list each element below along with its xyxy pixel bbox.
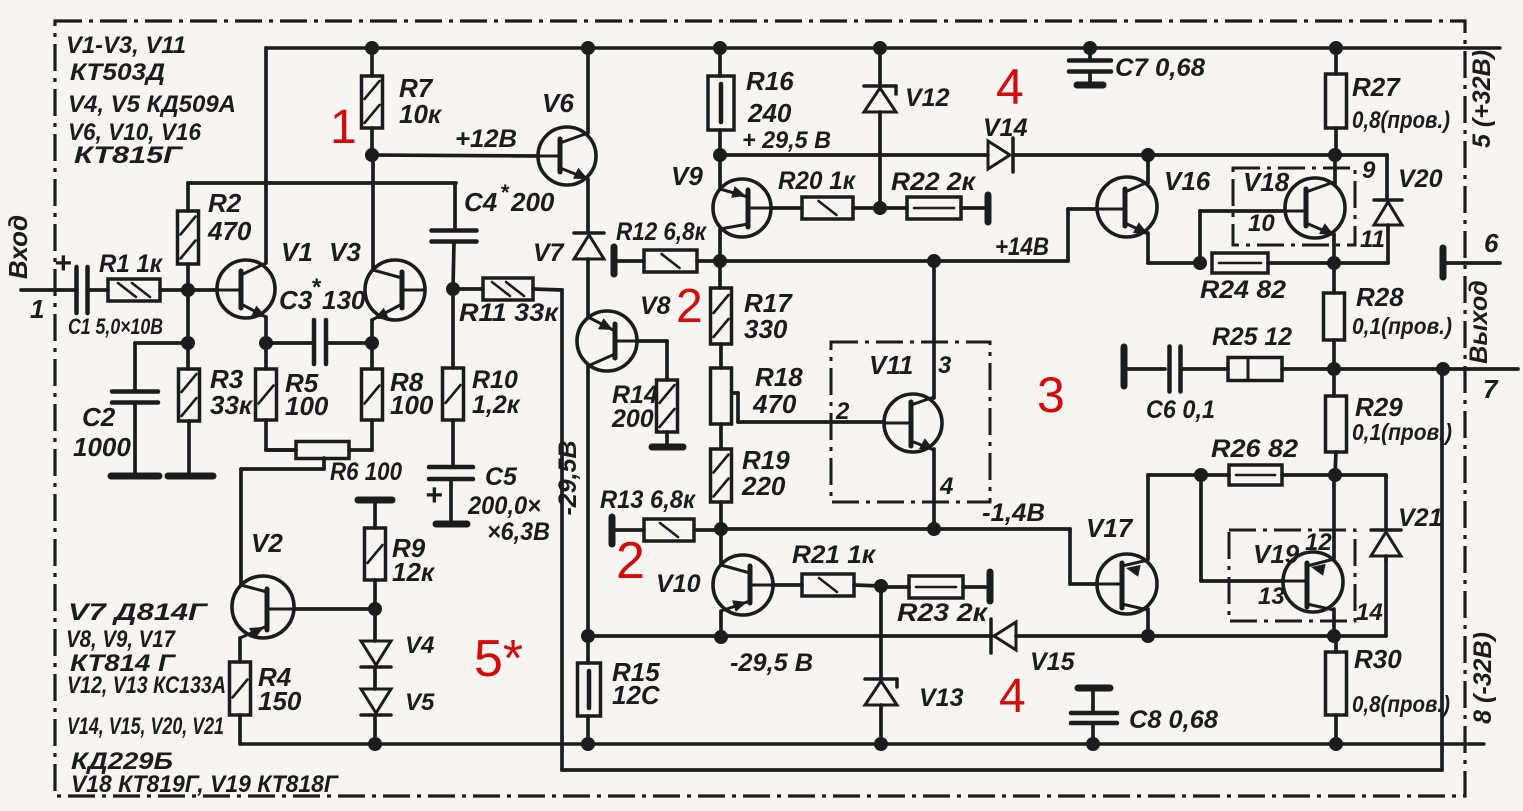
node V3 emitter junction [365, 336, 379, 350]
svg-text:2: 2 [676, 280, 703, 333]
capacitor C3 [312, 320, 317, 364]
node R20/R22 junction [873, 201, 887, 215]
box V19 dash-dot [1229, 530, 1355, 621]
wire C3 to V3 emitter [326, 341, 372, 345]
terminal bar R12 [611, 247, 618, 274]
transistor V16 [1097, 177, 1157, 237]
svg-text:R20 1к: R20 1к [778, 167, 856, 195]
svg-text:0,8(пров.): 0,8(пров.) [1352, 691, 1450, 717]
resistor R2 [178, 211, 199, 264]
resistor R15 [578, 663, 601, 716]
svg-text:12C: 12C [612, 680, 661, 710]
wire R28 top stem [1332, 263, 1336, 293]
wire R3 to ground bar [187, 421, 191, 473]
node R21/R23 junction [874, 579, 888, 593]
wire -32V bottom rail [240, 742, 1484, 745]
wire V8 base to R14 [636, 339, 667, 343]
wire V10 top entry [719, 529, 723, 565]
wire R21 to junction [854, 585, 881, 586]
node V11 emitter junction [927, 522, 941, 536]
svg-text:+: + [54, 247, 72, 280]
diode V5 [361, 689, 391, 713]
wire R18 tap [733, 391, 738, 395]
wire R30 bottom stem [1334, 715, 1338, 744]
svg-text:V12: V12 [905, 84, 950, 112]
node V1 base junction [181, 283, 195, 297]
node V3 base junction [446, 282, 460, 296]
wire V9 collector down [718, 229, 722, 261]
svg-text:C1 5,0×10В: C1 5,0×10В [68, 314, 163, 339]
svg-text:5 (+32В): 5 (+32В) [1468, 50, 1496, 148]
diode V20 [1374, 198, 1402, 202]
transistor V1 [217, 260, 275, 318]
svg-text:V8: V8 [640, 292, 671, 320]
wire V2 emitter [238, 638, 242, 662]
wire V2 base to node [294, 607, 375, 611]
wire terminal 6 [1446, 261, 1500, 265]
resistor R3 [179, 369, 200, 421]
wire R8 bottom [370, 420, 374, 450]
svg-text:10к: 10к [399, 99, 443, 129]
svg-text:R11 33к: R11 33к [459, 299, 559, 327]
resistor R5 [256, 369, 277, 420]
wire C1 to R1 [88, 288, 108, 292]
wire R29 top stem [1332, 369, 1336, 396]
wire +29,5V rail right [1013, 153, 1387, 157]
wire R12 to node [697, 259, 720, 263]
wire +14V line [720, 259, 1068, 263]
terminal 1 input wire [21, 288, 77, 292]
svg-text:+ 29,5 В: + 29,5 В [742, 127, 831, 154]
resistor R29 [1326, 396, 1347, 452]
wire bootstrap line y183 [188, 181, 456, 185]
transistor V10 [713, 555, 773, 615]
node -1,4V left junction [714, 522, 728, 536]
wire R11 to feedback line [533, 289, 562, 290]
svg-text:V4: V4 [405, 632, 434, 659]
svg-text:0,1(пров.): 0,1(пров.) [1352, 313, 1452, 339]
svg-text:R6 100: R6 100 [330, 458, 402, 486]
node V16 collector junction [1141, 148, 1155, 162]
node R24 left junction [1193, 256, 1207, 270]
svg-text:R18: R18 [755, 362, 803, 392]
wire -29,5V rail [588, 634, 992, 638]
wire C8 lower stem [1091, 723, 1095, 744]
wire +32V top rail [266, 46, 1500, 49]
wire R20 to junction [853, 206, 880, 210]
wire +12V to V6 base [372, 155, 538, 156]
node V17 emitter junction [1141, 629, 1155, 643]
wire feedback vertical left [560, 290, 564, 770]
wire R15 bottom [586, 716, 590, 744]
svg-text:+14В: +14В [995, 233, 1049, 261]
transistor V18 [1285, 178, 1345, 238]
svg-text:200: 200 [510, 187, 555, 217]
wire V10 bottom [719, 611, 723, 637]
svg-text:R23 2к: R23 2к [897, 599, 988, 627]
wire feedback return bottom [562, 768, 1442, 772]
wire V18 emitter [1332, 234, 1336, 263]
node R26 right junction [1328, 468, 1342, 482]
wire bar to C6 [1127, 367, 1165, 371]
svg-text:11: 11 [1360, 226, 1385, 253]
svg-text:R12 6,8к: R12 6,8к [616, 218, 707, 246]
terminal bar above R9 [358, 497, 392, 504]
svg-text:R16: R16 [746, 66, 794, 96]
wire V20 bottom [1386, 225, 1390, 263]
diode V13 zener [865, 677, 897, 681]
svg-text:V13: V13 [919, 684, 964, 712]
terminal bar R22 [985, 195, 992, 222]
node V18 emitter junction [1327, 256, 1341, 270]
capacitor C1 [74, 267, 79, 313]
wire R23 to bar [963, 585, 988, 589]
wire V16 collector [1146, 155, 1150, 183]
svg-text:220: 220 [741, 471, 786, 501]
capacitor C5 [429, 465, 473, 470]
svg-text:130: 130 [322, 285, 366, 315]
svg-text:6: 6 [1484, 228, 1499, 258]
svg-text:200,0×: 200,0× [467, 492, 541, 520]
wire junction to V21 [1335, 473, 1386, 477]
wire R22 to bar [961, 206, 986, 210]
svg-text:+12В: +12В [455, 125, 517, 153]
svg-text:R29: R29 [1355, 392, 1403, 422]
resistor R30 [1326, 652, 1347, 715]
diode V4 [361, 641, 391, 665]
ground bar R3 [168, 473, 213, 480]
svg-text:R27: R27 [1352, 72, 1401, 102]
svg-text:470: 470 [207, 216, 252, 246]
wire R30 top stem [1334, 636, 1338, 652]
resistor R10 [443, 368, 464, 420]
wire junction to R23 [881, 585, 909, 589]
svg-text:R21 1к: R21 1к [792, 541, 876, 569]
wire R5 bottom [264, 420, 268, 450]
wire +29,5V rail left [720, 153, 988, 157]
wire C6 to R25 [1181, 367, 1228, 371]
svg-text:0,1(пров.): 0,1(пров.) [1352, 419, 1452, 445]
wire R19 bottom [719, 502, 723, 529]
svg-text:V21: V21 [1398, 504, 1442, 532]
transistor V6 [538, 127, 596, 185]
svg-text:V6: V6 [542, 88, 574, 118]
node V19 emitter junction [1327, 629, 1341, 643]
terminal bar C8 [1078, 685, 1110, 692]
transistor V19 [1283, 552, 1343, 612]
capacitor C2 [112, 389, 158, 394]
svg-text:10: 10 [1248, 210, 1275, 237]
wire R6 left [266, 448, 296, 452]
wire C7 lower stem [1088, 72, 1092, 82]
svg-text:1,2к: 1,2к [472, 391, 521, 419]
wire R17-R18 [719, 344, 723, 368]
svg-text:×6,3В: ×6,3В [487, 518, 550, 546]
diode V12 zener [864, 84, 896, 88]
wire C7 stem [1088, 48, 1092, 60]
svg-text:V20: V20 [1398, 165, 1443, 193]
svg-text:*: * [500, 180, 510, 205]
svg-text:V8, V9, V17: V8, V9, V17 [66, 626, 176, 653]
transistor V11 [884, 394, 942, 452]
svg-text:C6 0,1: C6 0,1 [1146, 396, 1215, 424]
svg-text:V11: V11 [869, 350, 913, 380]
resistor R21 [802, 574, 854, 596]
wire V7 to V8 [586, 259, 590, 317]
resistor R27 [1326, 74, 1347, 128]
resistor R23 [909, 576, 963, 598]
wire V18 collector [1333, 155, 1337, 184]
wire R9 top stem [373, 503, 377, 528]
svg-text:C5: C5 [485, 463, 518, 491]
wire V3 emitter [370, 320, 374, 343]
wire R8 top [370, 343, 374, 369]
svg-text:9: 9 [1362, 157, 1376, 184]
svg-text:V18 КТ819Г, V19 КТ818Г: V18 КТ819Г, V19 КТ818Г [71, 771, 339, 798]
svg-text:V16: V16 [1164, 166, 1211, 196]
svg-text:7: 7 [1483, 374, 1499, 404]
resistor R22 [907, 197, 961, 219]
svg-text:-29,5 В: -29,5 В [730, 649, 813, 677]
wire R7 bottom stem [370, 128, 374, 155]
wire V11 collector [932, 261, 936, 398]
wire R26 right stem [1282, 473, 1335, 477]
wire output to terminal 7 [1442, 367, 1518, 371]
resistor R24 [1212, 253, 1268, 273]
capacitor C6 [1167, 347, 1172, 392]
wire R6 tap to V2 collector [239, 469, 243, 585]
svg-text:R25 12: R25 12 [1212, 323, 1292, 351]
wire to R3 [186, 343, 190, 369]
resistor R9 [365, 528, 386, 580]
wire emitter to C3 [266, 341, 314, 345]
svg-text:R30: R30 [1354, 644, 1402, 674]
wire R10 to C5 [451, 420, 455, 466]
wire V6 collector [586, 48, 590, 133]
wire V13 top [879, 586, 883, 677]
resistor R11 [483, 278, 533, 300]
resistor R28 [1324, 293, 1345, 340]
wire V1 collector [264, 48, 268, 263]
svg-text:3: 3 [938, 352, 952, 379]
svg-text:-1,4В: -1,4В [982, 499, 1045, 527]
svg-text:Выход: Выход [1465, 280, 1493, 363]
svg-text:4: 4 [999, 670, 1026, 723]
svg-text:330: 330 [744, 314, 788, 344]
svg-text:4: 4 [939, 473, 953, 500]
wire base node down [186, 290, 190, 343]
resistor R20 [802, 197, 853, 219]
svg-text:12к: 12к [392, 557, 436, 587]
wire V13 bottom [879, 705, 883, 744]
wire R7 top stem [370, 48, 374, 76]
terminal bar C6 [1121, 347, 1128, 386]
wire R5 top [264, 343, 268, 369]
svg-text:2: 2 [835, 398, 850, 425]
svg-text:C4: C4 [464, 187, 498, 217]
diode V7 (zener-free) [574, 231, 604, 235]
node +12V junction [365, 148, 379, 162]
svg-text:1000: 1000 [73, 432, 131, 462]
capacitor C8 [1071, 711, 1117, 716]
wire junction to V19 base [1199, 475, 1203, 581]
diode V15 [994, 622, 1016, 650]
wire R18-R19 [719, 424, 723, 449]
wire R14 bottom [665, 432, 669, 444]
svg-text:КТ503Д: КТ503Д [70, 59, 165, 86]
wire V5 to rail [373, 715, 377, 744]
wire C5 to bar [449, 479, 453, 521]
svg-text:V14, V15, V20, V21: V14, V15, V20, V21 [67, 713, 224, 740]
node bottom rail junctions [368, 737, 382, 751]
svg-text:V1-V3, V11: V1-V3, V11 [66, 32, 186, 59]
wire R24 to junction [1268, 261, 1334, 265]
wire V11 emitter [932, 449, 936, 529]
wire V4 to V5 [373, 667, 377, 689]
wire to C2 [135, 341, 188, 345]
svg-text:-29,5В: -29,5В [554, 440, 582, 515]
wire C4 to base node [453, 242, 454, 289]
node output right junction [1436, 362, 1450, 376]
svg-text:Вход: Вход [3, 215, 33, 279]
node top rail junctions [365, 41, 379, 55]
svg-text:470: 470 [752, 389, 797, 419]
svg-text:2: 2 [616, 532, 645, 590]
wire junction to V17 collector [1148, 473, 1201, 477]
svg-text:V14: V14 [983, 114, 1028, 142]
svg-text:1: 1 [30, 294, 44, 324]
wire V17 emitter [1146, 609, 1150, 636]
wire V18 base feed [1198, 211, 1202, 263]
svg-text:V9: V9 [671, 161, 703, 191]
wire C2 to ground bar [133, 403, 137, 473]
svg-text:R10: R10 [472, 366, 518, 394]
wire R27 top stem [1334, 48, 1338, 74]
wire R25 to output node [1282, 367, 1442, 371]
svg-text:3: 3 [1037, 367, 1065, 423]
svg-text:V18: V18 [1243, 167, 1290, 197]
resistor R4 [230, 662, 251, 715]
svg-text:C2: C2 [82, 402, 116, 432]
wire R27 bottom stem [1334, 128, 1338, 155]
resistor R16 [708, 76, 734, 130]
svg-text:V17: V17 [1086, 513, 1134, 543]
svg-text:200: 200 [611, 405, 654, 433]
terminal bar C5 [436, 521, 467, 528]
svg-text:14: 14 [1356, 599, 1383, 626]
wire R2 bottom stem [186, 264, 190, 290]
svg-text:+: + [425, 479, 443, 512]
wire R9 bottom [373, 580, 377, 609]
wire V19 collector [1332, 475, 1336, 559]
resistor R13 [644, 519, 694, 541]
wire R6 tap [322, 458, 326, 469]
node output junction [1327, 362, 1341, 376]
wire R15 top stem [586, 636, 590, 663]
wire R4 to rail [238, 715, 242, 744]
wire V9 emitter entry [718, 155, 722, 189]
svg-text:V2: V2 [251, 528, 283, 558]
wire R16 top stem [718, 48, 722, 76]
svg-text:5*: 5* [474, 630, 523, 688]
svg-text:R24 82: R24 82 [1200, 276, 1286, 304]
resistor R14 [657, 380, 678, 432]
svg-text:0,8(пров.): 0,8(пров.) [1352, 107, 1450, 134]
resistor R7 [362, 76, 383, 128]
node +14V left junction [713, 254, 727, 268]
wire bar to R12 [617, 259, 644, 263]
wire -1,4V line [721, 527, 1070, 531]
transistor V2 [232, 576, 294, 638]
svg-text:R22 2к: R22 2к [891, 168, 976, 196]
wire V10 base to R21 [772, 583, 802, 587]
wire V16 emitter row [1148, 261, 1200, 265]
resistor R12 [644, 250, 697, 272]
node R26 left junction [1194, 468, 1208, 482]
node V11 collector junction [927, 254, 941, 268]
resistor R6 [296, 442, 349, 459]
wire V8 collector down [586, 366, 590, 636]
wire R2 top stem [186, 183, 190, 211]
transistor V17 [1097, 554, 1157, 614]
wire junction to R22 [880, 206, 907, 210]
wire C8 upper stem [1091, 691, 1095, 712]
wire R13 to node [694, 528, 721, 532]
diode V14 [988, 141, 1010, 169]
svg-text:C8 0,68: C8 0,68 [1129, 706, 1218, 734]
svg-text:8 (-32В): 8 (-32В) [1469, 632, 1497, 724]
resistor R1 [108, 279, 160, 301]
resistor R18 [711, 368, 732, 424]
node R27 junction [1328, 148, 1342, 162]
svg-text:100: 100 [285, 391, 329, 421]
wire R17 top [718, 261, 722, 288]
svg-text:V5: V5 [405, 689, 435, 716]
terminal bar 6 [1440, 248, 1447, 277]
svg-text:C3: C3 [279, 285, 313, 315]
transistor V8 [577, 311, 637, 371]
svg-text:R13 6,8к: R13 6,8к [600, 486, 696, 514]
svg-text:V10: V10 [656, 570, 701, 598]
wire V12 bottom [878, 112, 882, 208]
resistor R17 [711, 288, 732, 344]
box V11 dash-dot [831, 342, 990, 502]
svg-text:V7 Д814Г: V7 Д814Г [68, 599, 209, 626]
wire V1 emitter [264, 317, 268, 343]
terminal bar R14 [652, 444, 683, 451]
wire R28 bottom stem [1332, 340, 1336, 369]
wire V3 collector [371, 155, 375, 270]
svg-text:V1: V1 [281, 237, 313, 267]
wire bootstrap corner to C4 [453, 183, 457, 230]
wire node to V4 [373, 609, 377, 641]
svg-text:R28: R28 [1356, 282, 1404, 312]
capacitor C7 [1069, 58, 1111, 63]
wire bar to R13 [615, 528, 644, 532]
wire R26 left stem [1201, 473, 1229, 477]
capacitor C4 [432, 228, 477, 233]
svg-text:C7 0,68: C7 0,68 [1115, 54, 1205, 82]
svg-text:V19: V19 [1253, 539, 1300, 569]
node C2/R3 junction [181, 336, 195, 350]
terminal bar R23 [987, 572, 994, 601]
svg-text:R1 1к: R1 1к [99, 250, 163, 278]
transistor V3 [365, 260, 425, 320]
transistor V9 [713, 179, 771, 237]
box V18 dash-dot [1233, 168, 1355, 245]
node +29,5V junction [713, 148, 727, 162]
svg-text:100: 100 [390, 390, 434, 420]
